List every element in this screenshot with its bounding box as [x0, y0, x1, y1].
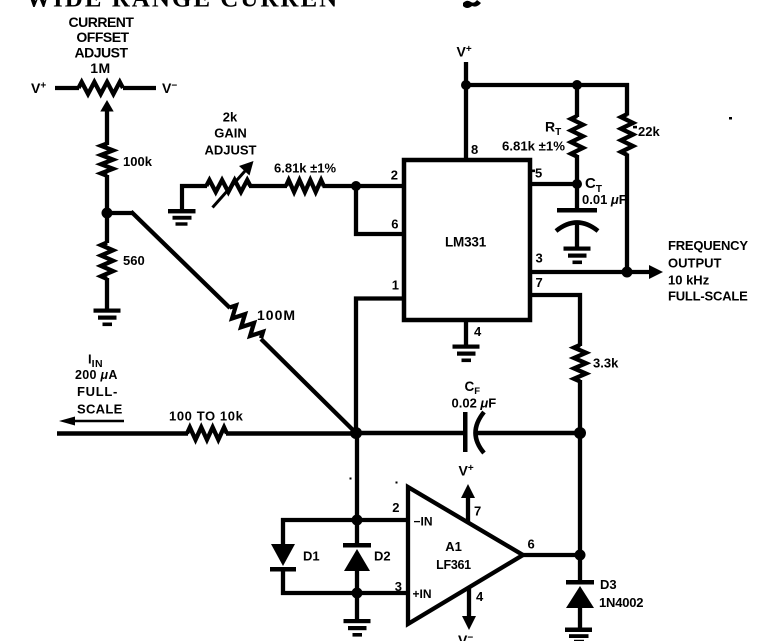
wire diagonal upper segment to 100M: [131, 212, 230, 309]
label A1 LF361: [436, 539, 471, 572]
wire D1 top branch: [281, 518, 357, 522]
svg-text:LF361: LF361: [436, 558, 471, 572]
pin 5 tick: [531, 170, 536, 173]
ground below node H: [344, 619, 371, 637]
wire CF to node F: [477, 431, 582, 436]
label FREQUENCY OUTPUT 10 kHz FULL-SCALE: [668, 238, 748, 304]
label 6.81k ±1% (RT): [502, 139, 565, 154]
pin 1 label: [392, 278, 399, 293]
pin 3 label: [536, 251, 543, 266]
svg-text:3: 3: [536, 251, 543, 266]
potentiometer 1M wiper arrow: [100, 100, 113, 145]
wire pin 7 to 3.3k: [530, 295, 580, 346]
label V- (op-amp): [458, 632, 473, 641]
wire node F to node I: [578, 433, 582, 555]
wire 3.3k to node F: [578, 380, 582, 435]
IC U1 LM331 box: [404, 160, 530, 320]
label 0.01 uF: [582, 192, 627, 207]
svg-text:ADJUST: ADJUST: [204, 143, 256, 158]
svg-text:10 kHz: 10 kHz: [668, 273, 710, 288]
svg-text:560: 560: [123, 253, 145, 268]
wire input line left: [57, 431, 188, 435]
svg-text:OUTPUT: OUTPUT: [668, 256, 722, 271]
label 2k GAIN ADJUST: [204, 110, 256, 158]
label LM331: [445, 235, 487, 250]
wire node A horizontal stub: [107, 211, 133, 215]
pin 5 label: [535, 166, 542, 181]
frequency output arrow: [627, 265, 663, 279]
svg-text:200 μA: 200 μA: [75, 368, 118, 382]
wire pin 5 to node D: [530, 182, 577, 186]
node V+ junction dot (pin8): [461, 80, 471, 90]
svg-text:6: 6: [528, 537, 535, 552]
resistor 560: [101, 243, 113, 279]
wire 100k to node A: [105, 175, 109, 215]
input arrow IIN: [59, 417, 124, 426]
svg-text:4: 4: [476, 589, 484, 604]
label IIN 200uA FULL-SCALE: [75, 352, 123, 417]
capacitor CT curved plate: [556, 223, 598, 232]
diode D3: [566, 580, 594, 608]
node C junction dot: [351, 181, 361, 191]
svg-text:WIDE RANGE CURREN: WIDE RANGE CURREN: [26, 0, 339, 13]
svg-text:3.3k: 3.3k: [593, 356, 619, 371]
label D3: [600, 577, 617, 592]
wire D1 cathode: [281, 571, 285, 595]
wire CT to ground: [575, 224, 579, 248]
svg-text:100 TO 10k: 100 TO 10k: [169, 409, 244, 424]
wire -IN node down to D2: [355, 520, 359, 546]
wire 560 to ground: [105, 278, 109, 310]
svg-text:0.02 μF: 0.02 μF: [452, 396, 497, 411]
svg-text:FULL-SCALE: FULL-SCALE: [668, 289, 748, 304]
svg-text:2k: 2k: [223, 110, 238, 125]
wire D1 anode: [281, 518, 285, 545]
pin 8 label: [471, 142, 478, 157]
label 100 TO 10k: [169, 409, 244, 424]
svg-text:D1: D1: [303, 549, 320, 564]
pin 7 label: [536, 275, 543, 290]
label 22k: [638, 124, 660, 139]
op-amp V+ supply arrow: [461, 484, 475, 522]
wire pot 2k to 6.81k: [249, 184, 287, 188]
svg-text:V−: V−: [458, 632, 473, 641]
wire node A to 560: [105, 213, 109, 243]
svg-text:OFFSET: OFFSET: [76, 29, 129, 45]
wire pin 4 to ground: [464, 320, 468, 346]
wire ground to pot 2k: [182, 186, 207, 210]
title WIDE RANGE CURREN (clipped at top): [26, 0, 339, 13]
label +IN: [413, 587, 432, 601]
svg-text:ADJUST: ADJUST: [74, 45, 128, 61]
svg-text:1: 1: [392, 278, 399, 293]
label V+ (op-amp): [459, 463, 474, 479]
pin 2 label (op-amp): [392, 500, 399, 515]
svg-text:2: 2: [392, 500, 399, 515]
node G junction dot (-IN): [352, 515, 363, 526]
svg-text:1N4002: 1N4002: [599, 595, 643, 610]
pin 4 label (op-amp): [476, 589, 484, 604]
wire diagonal lower segment to node B: [261, 339, 357, 434]
label 100M: [257, 307, 296, 323]
diode D1: [270, 544, 296, 572]
wire node B to CF: [356, 431, 465, 436]
resistor 100k: [101, 144, 113, 176]
label D1: [303, 549, 320, 564]
label RT: [545, 119, 561, 139]
svg-text:100k: 100k: [123, 154, 153, 169]
V+ rail top: [466, 83, 629, 87]
wire op-amp output to node I: [522, 553, 582, 557]
svg-text:6: 6: [391, 217, 398, 232]
pin 6 label: [391, 217, 398, 232]
wire 22k to node E: [625, 154, 629, 275]
resistor 22k: [621, 114, 633, 155]
label CT: [585, 175, 602, 195]
wire pin 3 to node E: [530, 270, 627, 274]
label V+ (top): [457, 44, 472, 60]
svg-text:−IN: −IN: [414, 515, 433, 529]
svg-text:100M: 100M: [257, 307, 296, 323]
svg-text:LM331: LM331: [445, 235, 487, 250]
wire rail to RT: [575, 85, 579, 117]
22k tick: [633, 126, 637, 129]
op-amp A1 LF361 triangle: [408, 487, 523, 624]
resistor RT 6.81k: [571, 116, 583, 157]
svg-text:+IN: +IN: [413, 587, 432, 601]
wire D3 to ground: [578, 606, 582, 629]
node F junction dot: [574, 427, 586, 439]
svg-text:6.81k ±1%: 6.81k ±1%: [502, 139, 565, 154]
node E junction dot: [622, 267, 633, 278]
scan speck above op-amp: [396, 482, 398, 484]
scan speck left of op-amp: [350, 478, 352, 480]
resistor 100M (diagonal): [225, 303, 265, 342]
svg-text:D3: D3: [600, 577, 617, 592]
diode D2: [343, 543, 371, 571]
svg-text:FREQUENCY: FREQUENCY: [668, 238, 748, 253]
pin 2 label: [391, 168, 398, 183]
wire pin 8 to V+ rail: [464, 85, 468, 160]
pin 3 label (op-amp): [395, 579, 402, 594]
label -IN: [414, 515, 433, 529]
svg-text:D2: D2: [374, 549, 391, 564]
wire node H to ground: [355, 593, 359, 621]
resistor 3.3k: [574, 345, 586, 381]
wire V+ stub: [464, 62, 468, 85]
resistor 6.81k 1%: [286, 180, 324, 192]
label 0.02 uF: [452, 396, 497, 411]
svg-text:CURRENT: CURRENT: [69, 14, 135, 30]
svg-text:4: 4: [474, 324, 482, 339]
node H junction dot (+IN): [352, 588, 363, 599]
svg-text:A1: A1: [445, 539, 462, 554]
pin 4 label: [474, 324, 482, 339]
capacitor CF flat plate: [463, 412, 468, 452]
wire resistor to node B: [226, 431, 358, 435]
ground at 2k pot: [168, 209, 196, 226]
wire V+ to pot 1M: [55, 86, 79, 90]
svg-text:SCALE: SCALE: [77, 402, 123, 417]
svg-text:22k: 22k: [638, 124, 660, 139]
svg-text:2: 2: [391, 168, 398, 183]
scan speck near 22k: [729, 117, 732, 120]
svg-text:5: 5: [535, 166, 542, 181]
svg-text:3: 3: [395, 579, 402, 594]
resistor 100 TO 10k: [187, 427, 227, 439]
node A junction dot: [102, 208, 113, 219]
label 3.3k: [593, 356, 619, 371]
label D2: [374, 549, 391, 564]
wire bottom branch D1 to node H: [281, 591, 357, 595]
label 560: [123, 253, 145, 268]
svg-text:7: 7: [536, 275, 543, 290]
ground below 560: [94, 309, 121, 327]
svg-text:FULL-: FULL-: [77, 384, 118, 399]
node V+ junction dot (RT): [572, 80, 582, 90]
op-amp V- supply arrow: [462, 588, 476, 630]
label 100k: [123, 154, 153, 169]
svg-text:8: 8: [471, 142, 478, 157]
wire 6.81k to node C: [323, 184, 359, 188]
ground below D3: [565, 628, 592, 641]
wire RT to node D: [575, 155, 579, 186]
wire pin 1 to node B vertical: [356, 299, 404, 435]
node D junction dot: [572, 179, 582, 189]
label CURRENT OFFSET ADJUST 1M: [69, 14, 135, 76]
pin 7 label (op-amp): [474, 504, 481, 519]
svg-text:7: 7: [474, 504, 481, 519]
svg-text:6.81k ±1%: 6.81k ±1%: [274, 161, 337, 176]
wire -IN node to op-amp pin 2: [357, 518, 409, 522]
wire node C to pin 2: [356, 184, 404, 188]
label CF: [465, 379, 481, 397]
ground below pin 4: [453, 345, 480, 363]
svg-text:1M: 1M: [90, 60, 110, 76]
wire D2 to node H: [355, 570, 359, 595]
title symbol fragment: [463, 0, 481, 8]
node I junction dot: [575, 550, 586, 561]
capacitor CT top plate wire: [575, 184, 579, 209]
wire node C down to pin 6: [356, 186, 404, 234]
label 1N4002: [599, 595, 643, 610]
label pin 6: [528, 537, 535, 552]
label V+ (left of R5 pot): [31, 80, 46, 96]
wire +IN node to op-amp pin 3: [357, 591, 409, 595]
potentiometer 2k arrow: [213, 161, 254, 208]
label 6.81k ±1% (gain): [274, 161, 337, 176]
wire node I to D3: [578, 555, 582, 582]
potentiometer 2k body: [206, 180, 250, 192]
svg-text:GAIN: GAIN: [214, 126, 247, 141]
capacitor CT flat plate: [557, 208, 597, 213]
potentiometer 1M body: [79, 82, 123, 94]
wire pot 1M to V-: [123, 86, 156, 90]
node B junction dot: [350, 427, 362, 439]
label V- (right of R5 pot): [162, 80, 177, 96]
wire rail corner to 22k: [625, 83, 629, 116]
ground below CT: [564, 247, 591, 265]
wire node B down to -IN node: [355, 433, 359, 522]
capacitor CF curved plate: [476, 412, 485, 453]
svg-text:0.01 μF: 0.01 μF: [582, 192, 627, 207]
